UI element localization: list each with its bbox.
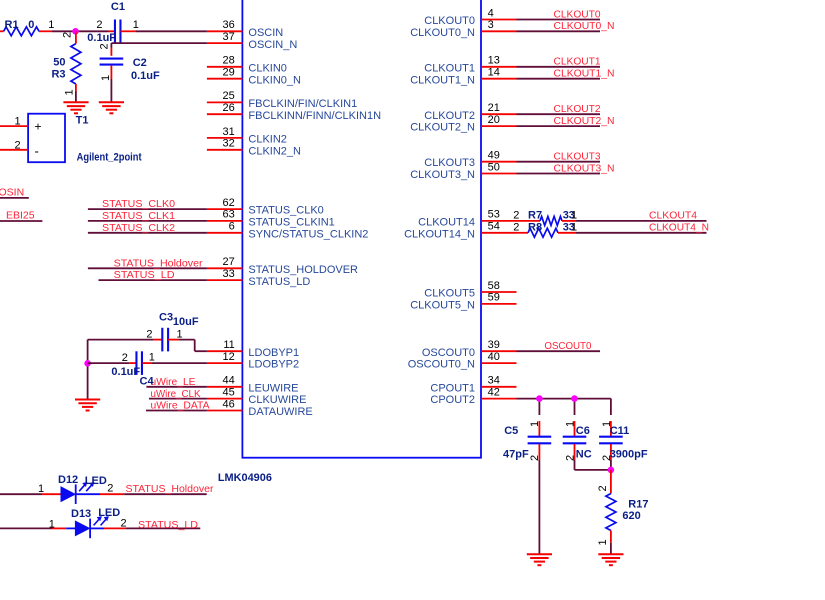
ground for C2 (99, 102, 124, 113)
wire corner down (194, 340, 196, 352)
svg-text:uWire_DATA: uWire_DATA (151, 400, 210, 412)
resistor R7 (540, 216, 562, 225)
svg-text:1: 1 (38, 483, 44, 495)
svg-text:CLKOUT4: CLKOUT4 (649, 210, 697, 222)
svg-text:CLKOUT5: CLKOUT5 (424, 288, 475, 300)
svg-text:29: 29 (223, 67, 235, 79)
wire net CLKOUT4 (576, 220, 707, 222)
svg-text:D12: D12 (58, 474, 78, 486)
svg-text:0.1uF: 0.1uF (111, 366, 140, 378)
svg-text:42: 42 (488, 386, 500, 398)
C6 pin 1 stub (574, 421, 576, 436)
svg-text:28: 28 (223, 55, 235, 67)
svg-text:1: 1 (63, 89, 75, 95)
wire net uWire_LE (146, 386, 207, 388)
pin 29 CLKIN0_N stub (207, 78, 243, 80)
C11 pin 1 stub (610, 421, 612, 436)
wire net CLKOUT2_N (517, 125, 601, 127)
svg-text:13: 13 (488, 55, 500, 67)
svg-text:1: 1 (565, 421, 577, 427)
pin 31 CLKIN2 stub (207, 137, 243, 139)
ground for R17 (598, 554, 623, 565)
svg-text:2: 2 (107, 482, 113, 494)
resistor R1 (4, 27, 39, 36)
svg-text:1: 1 (529, 421, 541, 427)
R3 pin 2 stub (75, 31, 77, 43)
svg-text:CLKOUT2: CLKOUT2 (424, 110, 475, 122)
pin 33 STATUS_LD stub (207, 279, 243, 281)
junction C5/CPOUT2 (536, 395, 543, 402)
svg-text:CLKOUT14_N: CLKOUT14_N (404, 228, 475, 240)
wire R1 left lead (0, 30, 4, 32)
ground for R3 (63, 102, 88, 113)
wire to LDOBYP1 (195, 350, 207, 352)
svg-text:2: 2 (96, 19, 102, 31)
svg-text:CPOUT2: CPOUT2 (430, 394, 475, 406)
T1 pin 1 stub (0, 125, 28, 127)
svg-text:20: 20 (488, 114, 500, 126)
pin 14 CLKOUT1_N stub (481, 78, 517, 80)
svg-text:3900pF: 3900pF (610, 449, 648, 461)
svg-text:CLKIN0: CLKIN0 (248, 62, 287, 74)
pin 27 STATUS_HOLDOVER stub (207, 267, 243, 269)
wire node to C4 (88, 362, 130, 364)
LED D12 (61, 482, 94, 504)
wire net STATUS_CLK1 (88, 220, 207, 222)
pin 45 CLKUWIRE stub (207, 398, 243, 400)
svg-text:2: 2 (601, 455, 613, 461)
wire to D12 (0, 493, 42, 495)
svg-text:STATUS_CLKIN1: STATUS_CLKIN1 (248, 217, 334, 229)
svg-text:FBCLKIN/FIN/CLKIN1: FBCLKIN/FIN/CLKIN1 (248, 98, 357, 110)
svg-text:1: 1 (15, 115, 21, 127)
svg-text:CLKOUT3_N: CLKOUT3_N (554, 162, 615, 174)
svg-text:53: 53 (488, 209, 500, 221)
LED D13 (75, 516, 108, 538)
wire R17 to ground (610, 543, 612, 554)
pin 59 CLKOUT5_N stub (481, 303, 517, 305)
pin 25 FBCLKIN/FIN/CLKIN1 stub (207, 101, 243, 103)
C3 pin 1 stub (168, 339, 179, 341)
op-amp U1 LMK04906 IC body (242, 0, 481, 458)
pin 39 OSCOUT0 stub (481, 350, 517, 352)
svg-text:CLKOUT3: CLKOUT3 (554, 151, 601, 163)
svg-text:CLKOUT3_N: CLKOUT3_N (410, 169, 475, 181)
svg-text:STATUS_CLK0: STATUS_CLK0 (248, 205, 323, 217)
wire EBI25 (0, 220, 42, 222)
C4 pin 2 stub (129, 362, 136, 364)
C2 pin 1 stub (110, 66, 112, 79)
svg-text:uWire_CLK: uWire_CLK (151, 388, 201, 400)
pin 4 CLKOUT0 stub (481, 19, 517, 21)
D12 pin 2 stub (100, 493, 124, 495)
wire net STATUS_Holdover (124, 493, 207, 495)
wire net CLKOUT1 (517, 66, 601, 68)
svg-text:25: 25 (223, 90, 235, 102)
C5 pin 1 stub (538, 421, 540, 436)
wire net CLKOUT4_N (576, 232, 707, 234)
svg-text:-: - (35, 144, 39, 159)
svg-text:OSCOUT0: OSCOUT0 (422, 347, 475, 359)
svg-text:4: 4 (488, 7, 494, 19)
capacitor C1 (115, 20, 121, 44)
svg-text:R1: R1 (5, 19, 19, 31)
pin 62 STATUS_CLK0 stub (207, 208, 243, 210)
svg-text:CLKOUT2: CLKOUT2 (554, 103, 601, 115)
svg-text:R8: R8 (528, 221, 542, 233)
wire net CLKOUT3_N (517, 173, 601, 175)
wire to C3 pin2 (88, 339, 154, 341)
wire R3 to ground (75, 92, 77, 103)
svg-text:1: 1 (571, 210, 577, 222)
svg-text:NC: NC (576, 449, 592, 461)
D12 cathode lead (76, 493, 100, 495)
pin 37 OSCIN_N stub (207, 42, 243, 44)
junction C11/R17 (608, 467, 615, 474)
svg-text:620: 620 (622, 510, 640, 522)
C3 pin 2 stub (154, 339, 163, 341)
svg-text:CLKOUT1: CLKOUT1 (554, 56, 601, 68)
R3 pin 1 stub (75, 84, 77, 92)
svg-text:3: 3 (488, 19, 494, 31)
wire net CLKOUT3 (517, 161, 601, 163)
wire net STATUS_LD (99, 279, 207, 281)
svg-text:uWire_LE: uWire_LE (151, 376, 196, 388)
svg-text:OSIN: OSIN (0, 186, 24, 198)
junction node LDOBYP2 (84, 360, 91, 367)
junction C6/CPOUT2 (571, 395, 578, 402)
pin 58 CLKOUT5 stub (481, 291, 517, 293)
svg-text:C1: C1 (111, 1, 125, 13)
svg-text:34: 34 (488, 375, 500, 387)
pin 36 OSCIN stub (207, 30, 243, 32)
wire net STATUS_CLK2 (88, 232, 207, 234)
wire net STATUS_CLK0 (88, 208, 207, 210)
svg-text:STATUS_LD: STATUS_LD (114, 269, 175, 281)
svg-text:CLKOUT2_N: CLKOUT2_N (410, 122, 475, 134)
svg-text:+: + (35, 120, 42, 134)
svg-text:C2: C2 (133, 57, 147, 69)
svg-text:LED: LED (85, 475, 107, 487)
pin 42 CPOUT2 stub (481, 398, 517, 400)
svg-text:CLKOUT0: CLKOUT0 (554, 8, 601, 20)
pin 13 CLKOUT1 stub (481, 66, 517, 68)
svg-text:OSCOUT0_N: OSCOUT0_N (408, 359, 475, 371)
svg-text:CLKOUT1_N: CLKOUT1_N (410, 74, 475, 86)
svg-text:0: 0 (28, 19, 34, 31)
C2 pin 2 stub (110, 48, 112, 56)
svg-text:STATUS_LD: STATUS_LD (138, 519, 198, 531)
capacitor C4 (136, 351, 142, 375)
wire OSCIN_N to C2 (111, 42, 206, 44)
R17 pin 1 lead (610, 531, 612, 543)
svg-text:2: 2 (15, 140, 21, 152)
pin 26 FBCLKINN/FINN/CLKIN1N stub (207, 113, 243, 115)
svg-text:C3: C3 (159, 312, 173, 324)
wire R1 to junction (39, 30, 52, 32)
svg-text:1: 1 (49, 518, 55, 530)
wire net CLKOUT2 (517, 113, 601, 115)
svg-text:1: 1 (177, 328, 183, 340)
svg-text:FBCLKINN/FINN/CLKIN1N: FBCLKINN/FINN/CLKIN1N (248, 110, 381, 122)
svg-text:CLKOUT4_N: CLKOUT4_N (649, 222, 709, 234)
svg-text:62: 62 (223, 197, 235, 209)
wire down to LDOBYP2 node (87, 340, 89, 364)
svg-text:12: 12 (223, 351, 235, 363)
svg-text:STATUS_CLK2: STATUS_CLK2 (102, 222, 175, 234)
wire net CLKOUT0_N (517, 30, 601, 32)
svg-text:31: 31 (223, 126, 235, 138)
wire down to C5 (538, 399, 540, 415)
svg-text:36: 36 (223, 19, 235, 31)
C5 pin 2 stub (538, 444, 540, 460)
svg-text:1: 1 (149, 351, 155, 363)
capacitor C3 (162, 328, 168, 352)
svg-text:STATUS_Holdover: STATUS_Holdover (114, 257, 203, 269)
wire OSIN (0, 197, 29, 199)
svg-text:63: 63 (223, 209, 235, 221)
svg-text:Agilent_2point: Agilent_2point (77, 151, 142, 163)
svg-text:R7: R7 (528, 210, 542, 222)
svg-text:45: 45 (223, 386, 235, 398)
pin 11 LDOBYP1 stub (207, 350, 243, 352)
wire down to C2 (110, 43, 112, 47)
wire to D13 (0, 527, 52, 529)
pin 20 CLKOUT2_N stub (481, 125, 517, 127)
svg-text:39: 39 (488, 339, 500, 351)
svg-text:CLKOUT1: CLKOUT1 (424, 62, 475, 74)
svg-text:26: 26 (223, 102, 235, 114)
svg-text:STATUS_CLK1: STATUS_CLK1 (102, 210, 175, 222)
svg-text:LMK04906: LMK04906 (218, 472, 272, 484)
svg-text:1: 1 (100, 75, 112, 81)
svg-text:33: 33 (223, 268, 235, 280)
svg-text:C6: C6 (576, 425, 590, 437)
svg-text:LDOBYP1: LDOBYP1 (248, 347, 299, 359)
svg-text:11: 11 (223, 339, 234, 351)
svg-text:CLKOUT0_N: CLKOUT0_N (410, 27, 475, 39)
R7 pin 2 lead (517, 220, 541, 222)
svg-text:CLKOUT14: CLKOUT14 (418, 217, 475, 229)
resistor R8 (528, 228, 558, 237)
ground for C5 (527, 554, 552, 565)
svg-text:2: 2 (597, 485, 609, 491)
junction node OSCIN/R3 (72, 28, 79, 35)
pin 63 STATUS_CLKIN1 stub (207, 220, 243, 222)
svg-text:STATUS_Holdover: STATUS_Holdover (126, 483, 214, 495)
pin 32 CLKIN2_N stub (207, 149, 243, 151)
svg-text:50: 50 (53, 57, 65, 69)
pin 49 CLKOUT3 stub (481, 161, 517, 163)
svg-text:CLKIN2: CLKIN2 (248, 134, 287, 146)
svg-text:2: 2 (99, 43, 111, 49)
pin 40 OSCOUT0_N stub (481, 362, 517, 364)
wire C11 down (610, 460, 612, 470)
wire C3 to corner (179, 339, 195, 341)
svg-text:OSCIN_N: OSCIN_N (248, 39, 297, 51)
svg-text:C4: C4 (140, 376, 155, 388)
svg-text:0.1uF: 0.1uF (87, 32, 116, 44)
svg-text:C5: C5 (504, 425, 518, 437)
wire CPOUT2 bus (517, 398, 611, 400)
svg-text:2: 2 (513, 210, 519, 222)
svg-text:CLKOUT2_N: CLKOUT2_N (554, 115, 615, 127)
svg-text:R3: R3 (51, 68, 65, 80)
svg-text:DATAUWIRE: DATAUWIRE (248, 406, 312, 418)
capacitor C6 (563, 437, 587, 444)
D13 pin 1 stub (52, 527, 66, 529)
svg-text:STATUS_LD: STATUS_LD (248, 276, 310, 288)
svg-text:54: 54 (488, 221, 500, 233)
C1 pin 1 stub (121, 30, 137, 32)
R17 pin 2 lead (610, 470, 612, 494)
svg-text:2: 2 (513, 221, 519, 233)
pin 6 SYNC/STATUS_CLKIN2 stub (207, 232, 243, 234)
svg-text:CLKOUT0: CLKOUT0 (424, 15, 475, 27)
wire down to C6 (574, 399, 576, 415)
wire C6 to R17 node (575, 469, 611, 471)
svg-text:59: 59 (488, 292, 500, 304)
pin 12 LDOBYP2 stub (207, 362, 243, 364)
svg-text:1: 1 (601, 421, 613, 427)
svg-text:0.1uF: 0.1uF (131, 70, 160, 82)
pin 46 DATAUWIRE stub (207, 410, 243, 412)
svg-text:CLKIN0_N: CLKIN0_N (248, 74, 301, 86)
svg-text:32: 32 (223, 138, 235, 150)
D12 pin 1 stub (42, 493, 62, 495)
ground for C3/C4 (75, 400, 100, 411)
C1 pin 2 stub (109, 30, 115, 32)
svg-text:27: 27 (223, 256, 235, 268)
wire net STATUS_LD (125, 527, 200, 529)
svg-text:EBI25: EBI25 (6, 209, 35, 221)
svg-text:CPOUT1: CPOUT1 (430, 382, 475, 394)
transformer T1 Agilent_2point box (28, 114, 65, 163)
svg-text:58: 58 (488, 280, 500, 292)
svg-text:40: 40 (488, 351, 500, 363)
wire C2 to ground (110, 79, 112, 102)
svg-text:CLKUWIRE: CLKUWIRE (248, 394, 306, 406)
wire net uWire_DATA (146, 410, 207, 412)
svg-text:21: 21 (488, 102, 500, 114)
wire junction to C1 (52, 30, 109, 32)
svg-text:1: 1 (597, 539, 609, 545)
resistor R17 (606, 494, 616, 531)
R8 pin 1 lead (558, 232, 576, 234)
svg-text:44: 44 (223, 375, 235, 387)
wire C5 to ground (538, 460, 540, 555)
wire C4 to LDOBYP2 (152, 362, 207, 364)
pin 44 LEUWIRE stub (207, 386, 243, 388)
R7 pin 1 lead (562, 220, 576, 222)
svg-text:T1: T1 (76, 114, 89, 126)
T1 pin 2 stub (0, 149, 28, 151)
svg-text:STATUS_HOLDOVER: STATUS_HOLDOVER (248, 264, 358, 276)
pin 28 CLKIN0 stub (207, 66, 243, 68)
svg-text:49: 49 (488, 150, 500, 162)
R8 pin 2 lead (517, 232, 529, 234)
svg-text:50: 50 (488, 161, 500, 173)
svg-text:37: 37 (223, 31, 235, 43)
pin 50 CLKOUT3_N stub (481, 173, 517, 175)
svg-text:1: 1 (571, 221, 577, 233)
svg-text:D13: D13 (71, 508, 91, 520)
capacitor C2 (100, 59, 124, 65)
wire down to C11 (610, 399, 612, 415)
wire C1 to OSCIN (136, 30, 207, 32)
pin 21 CLKOUT2 stub (481, 113, 517, 115)
svg-text:6: 6 (229, 221, 235, 233)
svg-text:1: 1 (133, 19, 139, 31)
C6 pin 2 stub (574, 444, 576, 460)
svg-text:14: 14 (488, 67, 500, 79)
svg-text:1: 1 (48, 19, 54, 31)
pin 34 CPOUT1 stub (481, 386, 517, 388)
svg-text:2: 2 (565, 455, 577, 461)
svg-text:CLKOUT3: CLKOUT3 (424, 157, 475, 169)
pin 53 CLKOUT14 stub (481, 220, 517, 222)
svg-text:OSCOUT0: OSCOUT0 (544, 340, 591, 352)
wire C6 down (574, 460, 576, 470)
wire net OSCOUT0 (517, 350, 601, 352)
svg-text:R17: R17 (628, 498, 648, 510)
svg-text:LEUWIRE: LEUWIRE (248, 382, 298, 394)
resistor R3 (71, 44, 81, 84)
wire net CLKOUT0 (517, 19, 601, 21)
svg-text:OSCIN: OSCIN (248, 27, 283, 39)
D13 pin 2 stub (104, 527, 125, 529)
svg-text:CLKIN2_N: CLKIN2_N (248, 145, 301, 157)
C11 pin 2 stub (610, 444, 612, 460)
pin 54 CLKOUT14_N stub (481, 232, 517, 234)
wire net CLKOUT1_N (517, 78, 601, 80)
svg-text:2: 2 (62, 32, 74, 38)
D13 cathode lead (90, 527, 104, 529)
capacitor C11 (599, 437, 623, 444)
svg-text:47pF: 47pF (503, 449, 529, 461)
svg-text:10uF: 10uF (173, 316, 199, 328)
svg-text:2: 2 (529, 455, 541, 461)
svg-text:SYNC/STATUS_CLKIN2: SYNC/STATUS_CLKIN2 (248, 228, 368, 240)
svg-text:46: 46 (223, 398, 235, 410)
pin 3 CLKOUT0_N stub (481, 30, 517, 32)
svg-text:LED: LED (98, 507, 120, 519)
wire node to ground (87, 363, 89, 399)
capacitor C5 (528, 437, 552, 444)
svg-text:CLKOUT1_N: CLKOUT1_N (554, 68, 615, 80)
wire net uWire_CLK (149, 398, 207, 400)
svg-text:CLKOUT5_N: CLKOUT5_N (410, 300, 475, 312)
svg-text:STATUS_CLK0: STATUS_CLK0 (102, 198, 175, 210)
svg-text:2: 2 (146, 328, 152, 340)
C4 pin 1 stub (142, 362, 152, 364)
svg-text:LDOBYP2: LDOBYP2 (248, 359, 299, 371)
svg-text:CLKOUT0_N: CLKOUT0_N (554, 20, 615, 32)
svg-text:2: 2 (122, 352, 128, 364)
D13 anode lead (66, 527, 76, 529)
wire net STATUS_Holdover (88, 267, 207, 269)
